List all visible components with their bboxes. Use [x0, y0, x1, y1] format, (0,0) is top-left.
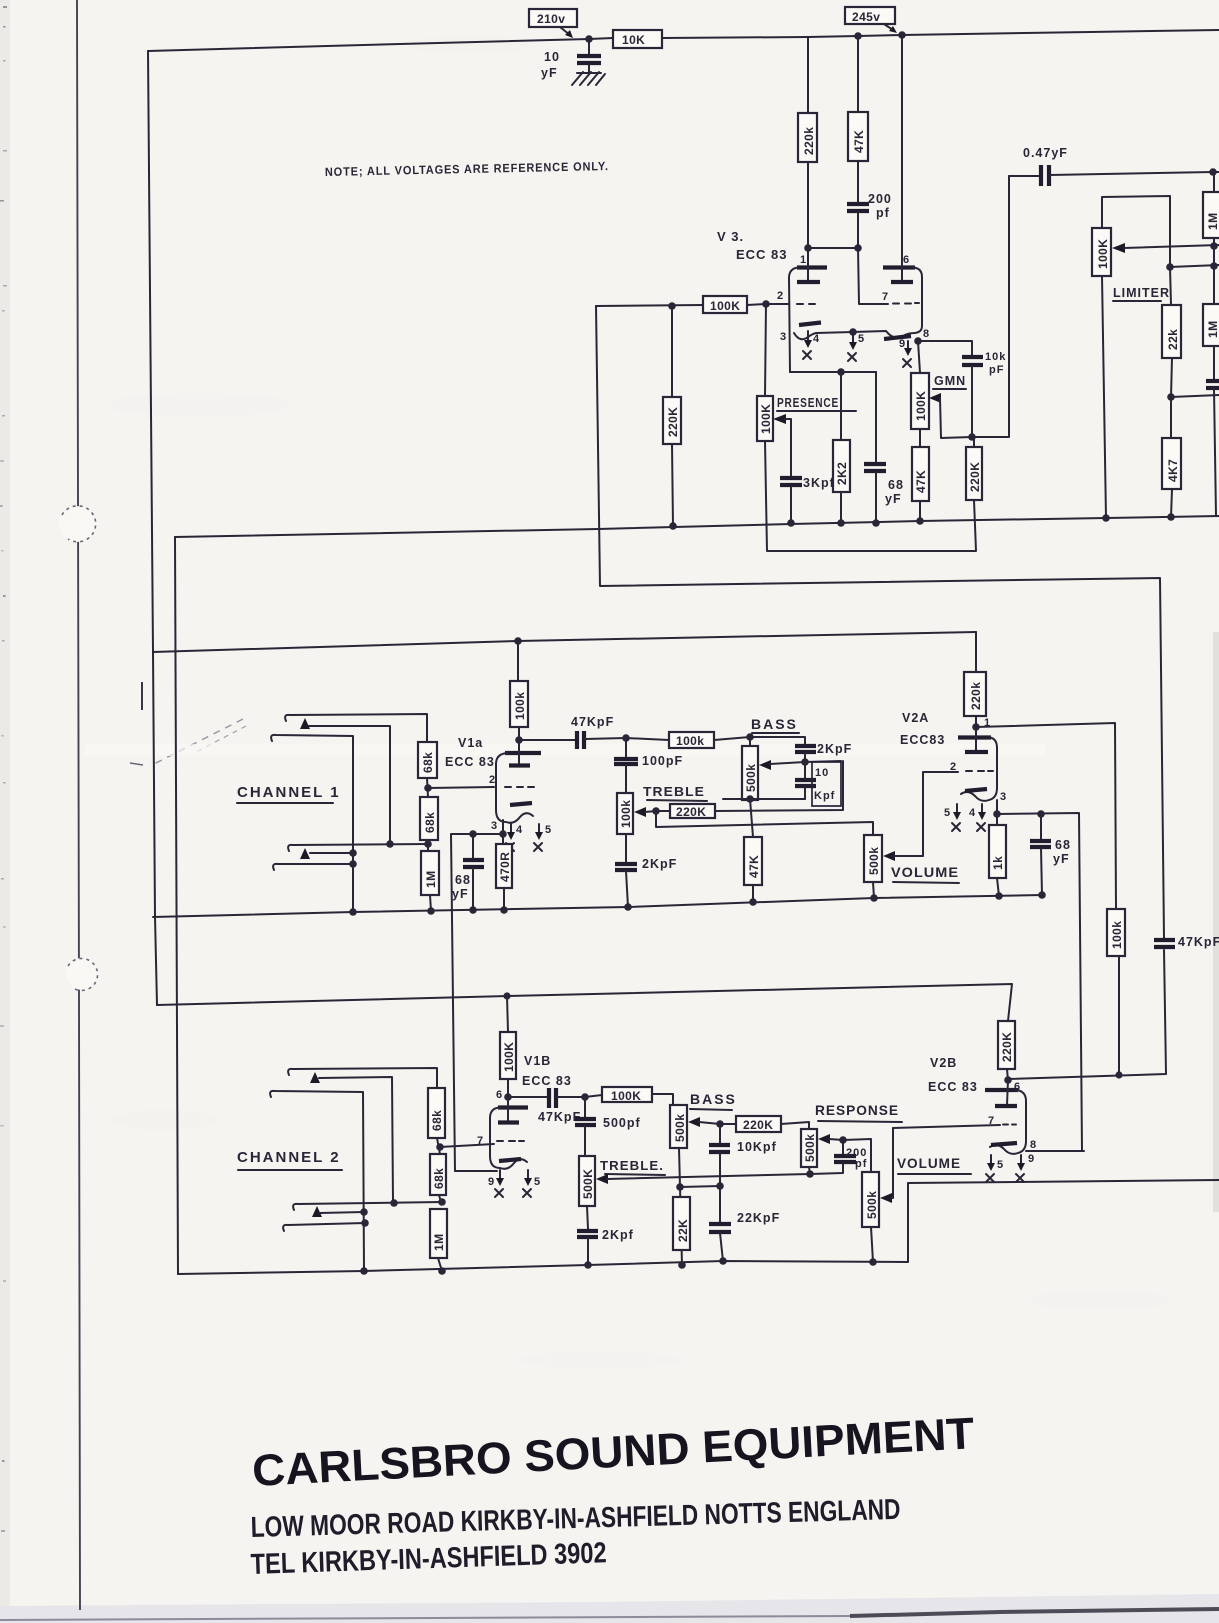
capacitor 2KpF ch1 [625, 834, 627, 862]
resistor 47K cathode V3b [919, 429, 921, 447]
scan crease light band [85, 744, 1045, 756]
svg-text:500K: 500K [581, 1169, 595, 1199]
resistor 47K ch1 [750, 799, 753, 837]
svg-text:3Kpf: 3Kpf [803, 476, 835, 490]
svg-text:2: 2 [489, 774, 495, 786]
wire cathode bus V1a [451, 834, 503, 1171]
svg-text:2Kpf: 2Kpf [602, 1228, 634, 1242]
wire B+ top rail [148, 38, 613, 51]
jack input 3 ch2 tip [293, 1202, 442, 1210]
svg-text:10k: 10k [985, 351, 1006, 363]
pencil scribble artifact [150, 719, 243, 766]
svg-text:500k: 500k [867, 847, 881, 875]
svg-text:3: 3 [491, 820, 497, 832]
svg-text:10: 10 [544, 50, 560, 64]
jack input 2 ch2 [270, 1091, 364, 1271]
capacitor 68uF ch1 [472, 834, 474, 858]
capacitor 2KpF slope ch1 [750, 737, 805, 744]
svg-text:22K: 22K [676, 1219, 690, 1242]
svg-text:TREBLE: TREBLE [643, 785, 705, 799]
svg-text:CHANNEL 2: CHANNEL 2 [237, 1149, 341, 1166]
svg-text:100K: 100K [611, 1089, 641, 1103]
resistor 1M upper (cut at edge) [1213, 172, 1215, 192]
grid V3b pin7 [893, 302, 919, 305]
svg-text:245v: 245v [852, 10, 880, 24]
wire ch1 ground rail [153, 895, 1042, 917]
potentiometer BASS 500k ch1 [749, 737, 751, 746]
svg-text:220K: 220K [743, 1118, 773, 1132]
svg-text:68k: 68k [423, 812, 437, 833]
capacitor 10uF [588, 39, 590, 54]
svg-text:100k: 100k [1110, 921, 1124, 949]
pin 9 x [907, 341, 909, 350]
svg-text:TREBLE.: TREBLE. [600, 1159, 664, 1173]
svg-text:8: 8 [923, 328, 929, 340]
svg-text:100k: 100k [513, 692, 527, 720]
node V2B plate junction on 1074 line [1115, 1071, 1122, 1078]
svg-text:100pF: 100pF [642, 754, 683, 768]
pin 4 x [510, 824, 512, 834]
capacitor 100pF [625, 738, 627, 757]
wire plate out V1a [515, 736, 523, 744]
svg-text:500k: 500k [673, 1114, 687, 1142]
wire grid feed V1a [428, 787, 494, 788]
svg-text:ECC 83: ECC 83 [522, 1074, 572, 1088]
jack input 4 [273, 864, 353, 870]
svg-text:22KpF: 22KpF [737, 1211, 780, 1225]
svg-text:pf: pf [855, 1158, 867, 1170]
pin 9 x [499, 1170, 501, 1180]
resistor 1M ch2 [430, 1209, 447, 1258]
jack input 2 [271, 735, 353, 912]
svg-text:ECC 83: ECC 83 [736, 247, 788, 262]
svg-text:68: 68 [1055, 838, 1071, 852]
wire bass bottom link ch2 [679, 1148, 682, 1265]
pin 4 x [807, 331, 809, 342]
svg-text:10Kpf: 10Kpf [737, 1140, 777, 1154]
tube V3 envelope right [883, 265, 915, 269]
resistor 220k plate V2A [975, 632, 977, 672]
capacitor 500pF [584, 1097, 586, 1117]
pin 5 x [956, 804, 958, 814]
pin 5 x [990, 1155, 992, 1165]
capacitor edge (cut) [1206, 379, 1219, 383]
svg-text:9: 9 [1028, 1153, 1034, 1165]
svg-text:1M: 1M [432, 1234, 446, 1251]
svg-text:100K: 100K [759, 404, 773, 434]
svg-text:10: 10 [815, 767, 829, 779]
resistor 68k lower ch2 [430, 1154, 446, 1195]
svg-text:5: 5 [534, 1176, 540, 1188]
svg-text:CHANNEL 1: CHANNEL 1 [237, 784, 341, 801]
svg-text:100K: 100K [914, 391, 928, 421]
svg-text:VOLUME: VOLUME [891, 864, 959, 880]
svg-text:4: 4 [813, 333, 820, 345]
cathode V2A [965, 789, 987, 791]
wire plate out V1B [508, 1096, 547, 1098]
svg-text:V2A: V2A [902, 711, 929, 725]
svg-text:100K: 100K [1096, 239, 1110, 269]
svg-text:6: 6 [903, 254, 909, 266]
svg-text:68k: 68k [421, 752, 435, 773]
resistor 22k [1170, 267, 1171, 305]
wire B+ top rail right part [662, 30, 1219, 38]
potentiometer LIMITER 100K [1092, 228, 1111, 276]
svg-text:2K2: 2K2 [835, 462, 849, 485]
svg-text:470R: 470R [498, 852, 512, 882]
svg-text:10K: 10K [622, 33, 645, 47]
svg-text:9: 9 [488, 1176, 494, 1188]
jack input 1 ch2 tip [288, 1068, 437, 1088]
svg-text:7: 7 [477, 1135, 483, 1147]
tube V3 envelope left [797, 265, 827, 269]
resistor 100k plate V1a [517, 641, 519, 681]
capacitor 10KpF ch1 [804, 762, 806, 778]
node pin 8 [914, 337, 922, 345]
stray mark left of frame [141, 682, 143, 710]
svg-text:pF: pF [989, 364, 1004, 376]
potentiometer TREBLE 500K ch2 [579, 1156, 595, 1206]
svg-text:7: 7 [988, 1115, 994, 1127]
svg-text:yF: yF [452, 887, 469, 901]
tube V1B envelope [498, 1105, 528, 1109]
tube V2B envelope [985, 1088, 1018, 1092]
cathode V3b [884, 336, 911, 339]
pin 4 x [981, 804, 983, 814]
svg-text:V1B: V1B [524, 1054, 551, 1068]
svg-text:1: 1 [800, 254, 806, 266]
capacitor 10Kpf [719, 1124, 721, 1143]
svg-text:V 3.: V 3. [717, 229, 744, 244]
resistor 220K ch2 [720, 1123, 736, 1125]
svg-text:LIMITER: LIMITER [1113, 286, 1170, 300]
svg-text:1M: 1M [1206, 321, 1219, 338]
svg-text:220K: 220K [676, 805, 706, 819]
svg-text:500pf: 500pf [603, 1116, 641, 1130]
svg-text:22k: 22k [1166, 329, 1180, 350]
wire jack3 contact [310, 852, 353, 854]
svg-text:ECC 83: ECC 83 [445, 755, 495, 769]
svg-text:100k: 100k [676, 734, 704, 748]
capacitor 68uF V2A [1040, 814, 1042, 839]
capacitor 47KpF ch2 [547, 1088, 551, 1108]
node 245v label [845, 7, 895, 24]
resistor 22K ch2 [673, 1197, 690, 1250]
svg-text:47K: 47K [852, 130, 866, 153]
svg-text:yF: yF [541, 66, 558, 80]
svg-text:200: 200 [868, 192, 892, 206]
anode V3a [807, 248, 809, 282]
bottom edge dark line [850, 1609, 1219, 1616]
wire main ground rail V3 [175, 516, 1219, 537]
capacitor 68uF V3 [875, 372, 877, 462]
resistor 220K plate V3 [807, 37, 809, 113]
grid V3a pin2 [766, 303, 789, 305]
capacitor 3KpF [780, 476, 802, 480]
svg-text:Kpf: Kpf [814, 790, 835, 802]
svg-text:2KpF: 2KpF [817, 742, 852, 756]
svg-text:100K: 100K [502, 1042, 516, 1072]
svg-text:5: 5 [545, 824, 551, 836]
cathode V1a [510, 803, 532, 805]
wire V3 grid right drop [858, 248, 888, 304]
wire wiper bus to 0.47uF column [972, 176, 1009, 437]
wire feedback line V3 grid to 47KpF column [596, 306, 1164, 938]
anode V2B [1007, 1080, 1008, 1105]
cathode V1B [499, 1159, 521, 1161]
grid V1a [505, 786, 534, 788]
wire V2A out [976, 723, 1116, 909]
svg-text:220K: 220K [968, 462, 982, 492]
potentiometer BASS 500k ch2 [670, 1105, 687, 1148]
pin 5 x [527, 1170, 529, 1180]
grid V1B [497, 1140, 524, 1142]
wire limiter top junction [1166, 263, 1174, 271]
capacitor 10KpF [962, 355, 983, 359]
resistor 1M ch1 [421, 851, 439, 895]
svg-text:4: 4 [969, 807, 976, 819]
svg-text:47K: 47K [747, 855, 761, 878]
potentiometer PRESENCE 100K [765, 304, 766, 396]
jack input 1 tip [285, 714, 427, 742]
node 210v label [529, 9, 577, 27]
hole punch top [59, 506, 95, 542]
svg-text:V2B: V2B [930, 1056, 957, 1070]
resistor 68k upper [418, 742, 437, 778]
hole punch bottom [66, 958, 98, 990]
svg-text:1M: 1M [1206, 213, 1219, 230]
svg-text:100K: 100K [710, 299, 740, 313]
pin 5 x [849, 328, 857, 336]
svg-text:VOLUME: VOLUME [897, 1155, 961, 1171]
svg-text:6: 6 [496, 1089, 502, 1101]
potentiometer TREBLE 100k ch1 [617, 793, 633, 834]
svg-text:5: 5 [944, 807, 950, 819]
wire ch2 ground rail [178, 1180, 1219, 1274]
capacitor 200pF ch2 [842, 1140, 844, 1154]
resistor 2K2 [840, 372, 842, 440]
potentiometer RESPONSE 500k [801, 1129, 817, 1167]
svg-text:BASS: BASS [751, 716, 798, 732]
bottom paper edge band [0, 1594, 1219, 1623]
svg-text:9: 9 [899, 338, 905, 350]
wire cathode tie from V1a [455, 1170, 497, 1172]
pin 9 x [1020, 1155, 1022, 1165]
resistor 68k upper ch2 [428, 1088, 445, 1138]
svg-text:3: 3 [1000, 791, 1006, 803]
svg-text:68k: 68k [430, 1110, 444, 1131]
resistor 100K grid V3 [703, 296, 747, 313]
svg-text:5: 5 [858, 333, 864, 345]
wire treble wiper to volume [656, 811, 873, 835]
svg-text:4K7: 4K7 [1166, 459, 1180, 482]
anode V2A [975, 727, 977, 752]
wire 47KpF column lower [1008, 950, 1166, 1079]
resistor 220K feedback [973, 437, 975, 447]
resistor 220K ch1 [670, 804, 715, 818]
svg-text:2KpF: 2KpF [642, 857, 677, 871]
svg-text:68: 68 [888, 478, 904, 492]
svg-text:PRESENCE: PRESENCE [777, 396, 839, 410]
tube V2A envelope [958, 735, 991, 739]
resistor 1k cathode V2A [996, 814, 998, 825]
svg-text:47KpF: 47KpF [1178, 935, 1219, 949]
capacitor 22KpF ch2 [719, 1186, 721, 1222]
svg-text:500k: 500k [865, 1191, 879, 1219]
capacitor 47KpF out [1154, 938, 1175, 942]
svg-text:2: 2 [777, 290, 783, 302]
svg-text:220k: 220k [802, 127, 816, 155]
svg-text:100k: 100k [619, 800, 633, 828]
svg-text:V1a: V1a [458, 736, 483, 750]
resistor 470R [502, 834, 504, 844]
anode V1a [518, 740, 520, 765]
svg-text:7: 7 [882, 291, 888, 303]
svg-text:500k: 500k [803, 1134, 817, 1162]
faint paper blotches [110, 393, 290, 417]
svg-text:GMN: GMN [934, 374, 966, 388]
wire anode link [808, 247, 858, 249]
grid V2B [893, 1125, 1000, 1128]
svg-text:68: 68 [455, 873, 471, 887]
node V1B plate supply [503, 992, 510, 999]
wire jack1 ch2 contact [319, 1077, 393, 1202]
svg-text:47K: 47K [914, 470, 928, 493]
wire pin8 to 10KpF [918, 341, 972, 355]
svg-text:220k: 220k [969, 682, 983, 710]
left margin speckle marks [0, 6, 7, 1532]
resistor 220K plate V2B [998, 1021, 1015, 1069]
svg-text:8: 8 [1030, 1139, 1036, 1151]
svg-text:RESPONSE: RESPONSE [815, 1102, 899, 1118]
resistor 10K [613, 30, 662, 48]
svg-text:pf: pf [876, 206, 890, 220]
capacitor 200pF [847, 202, 869, 206]
svg-text:5: 5 [997, 1159, 1003, 1171]
resistor 68k lower [420, 797, 438, 840]
svg-text:47KpF: 47KpF [538, 1110, 581, 1124]
wire jack3 ch2 contact [320, 1212, 364, 1213]
svg-text:0.47yF: 0.47yF [1023, 146, 1068, 160]
svg-text:220K: 220K [1000, 1032, 1014, 1062]
wire jack1 contact [309, 726, 390, 844]
svg-text:2: 2 [950, 761, 956, 773]
svg-text:4: 4 [516, 824, 523, 836]
wire inner left vertical (ground bus) [175, 537, 178, 1274]
left scan margin shading [0, 0, 10, 1623]
wire bass bottom bus [723, 798, 805, 800]
svg-text:ECC 83: ECC 83 [928, 1080, 978, 1094]
svg-text:500k: 500k [744, 764, 758, 792]
pin 5 x [538, 824, 540, 834]
ground [572, 72, 605, 85]
wire ch1 B+ rail [153, 632, 976, 652]
wire cathode bus V2A [997, 813, 1082, 1151]
resistor 1M lower (cut at edge) [1203, 304, 1219, 346]
svg-text:220K: 220K [666, 407, 680, 437]
resistor 220K grid leak V3 [671, 306, 673, 397]
tube V1a envelope [505, 751, 541, 755]
svg-text:yF: yF [885, 492, 902, 506]
svg-text:47KpF: 47KpF [571, 715, 614, 729]
potentiometer VOLUME 500k ch1 [864, 835, 882, 882]
svg-text:68k: 68k [432, 1168, 446, 1189]
anode V1B [507, 1097, 509, 1122]
resistor 100K plate V1B [507, 996, 508, 1032]
svg-text:1k: 1k [991, 856, 1005, 870]
resistor 100k mixer ch1 [669, 732, 714, 748]
svg-text:1M: 1M [424, 871, 438, 888]
resistor 4K7 [1170, 397, 1172, 438]
svg-text:yF: yF [1053, 852, 1070, 866]
resistor 100K mixer ch2 [585, 1095, 602, 1097]
page fold line [77, 0, 80, 1610]
svg-text:3: 3 [780, 331, 786, 343]
svg-text:210v: 210v [537, 12, 565, 26]
wire outer frame left vertical (B+ drop) [148, 51, 157, 1005]
potentiometer GMN 100K [918, 341, 920, 373]
resistor 47K V3 [857, 36, 859, 112]
jack input 4 ch2 [283, 1223, 365, 1231]
wire under-loop to presence [765, 441, 976, 551]
potentiometer VOLUME 500k ch2 [862, 1172, 879, 1227]
anode V3b [901, 35, 903, 282]
svg-text:BASS: BASS [690, 1091, 737, 1107]
cathode V2B [991, 1143, 1017, 1145]
svg-text:ECC83: ECC83 [900, 733, 945, 747]
wire grid feed V1B [440, 1144, 494, 1147]
wire cathode V3a bus [790, 371, 876, 373]
cathode V3a [799, 323, 821, 326]
jack input 3 tip [288, 844, 428, 851]
capacitor 2Kpf ch2 [587, 1206, 588, 1229]
resistor 100k V2A out drop [1107, 909, 1125, 956]
wire channel2 B+ feed [157, 984, 1012, 1021]
grid V2A [966, 770, 993, 772]
